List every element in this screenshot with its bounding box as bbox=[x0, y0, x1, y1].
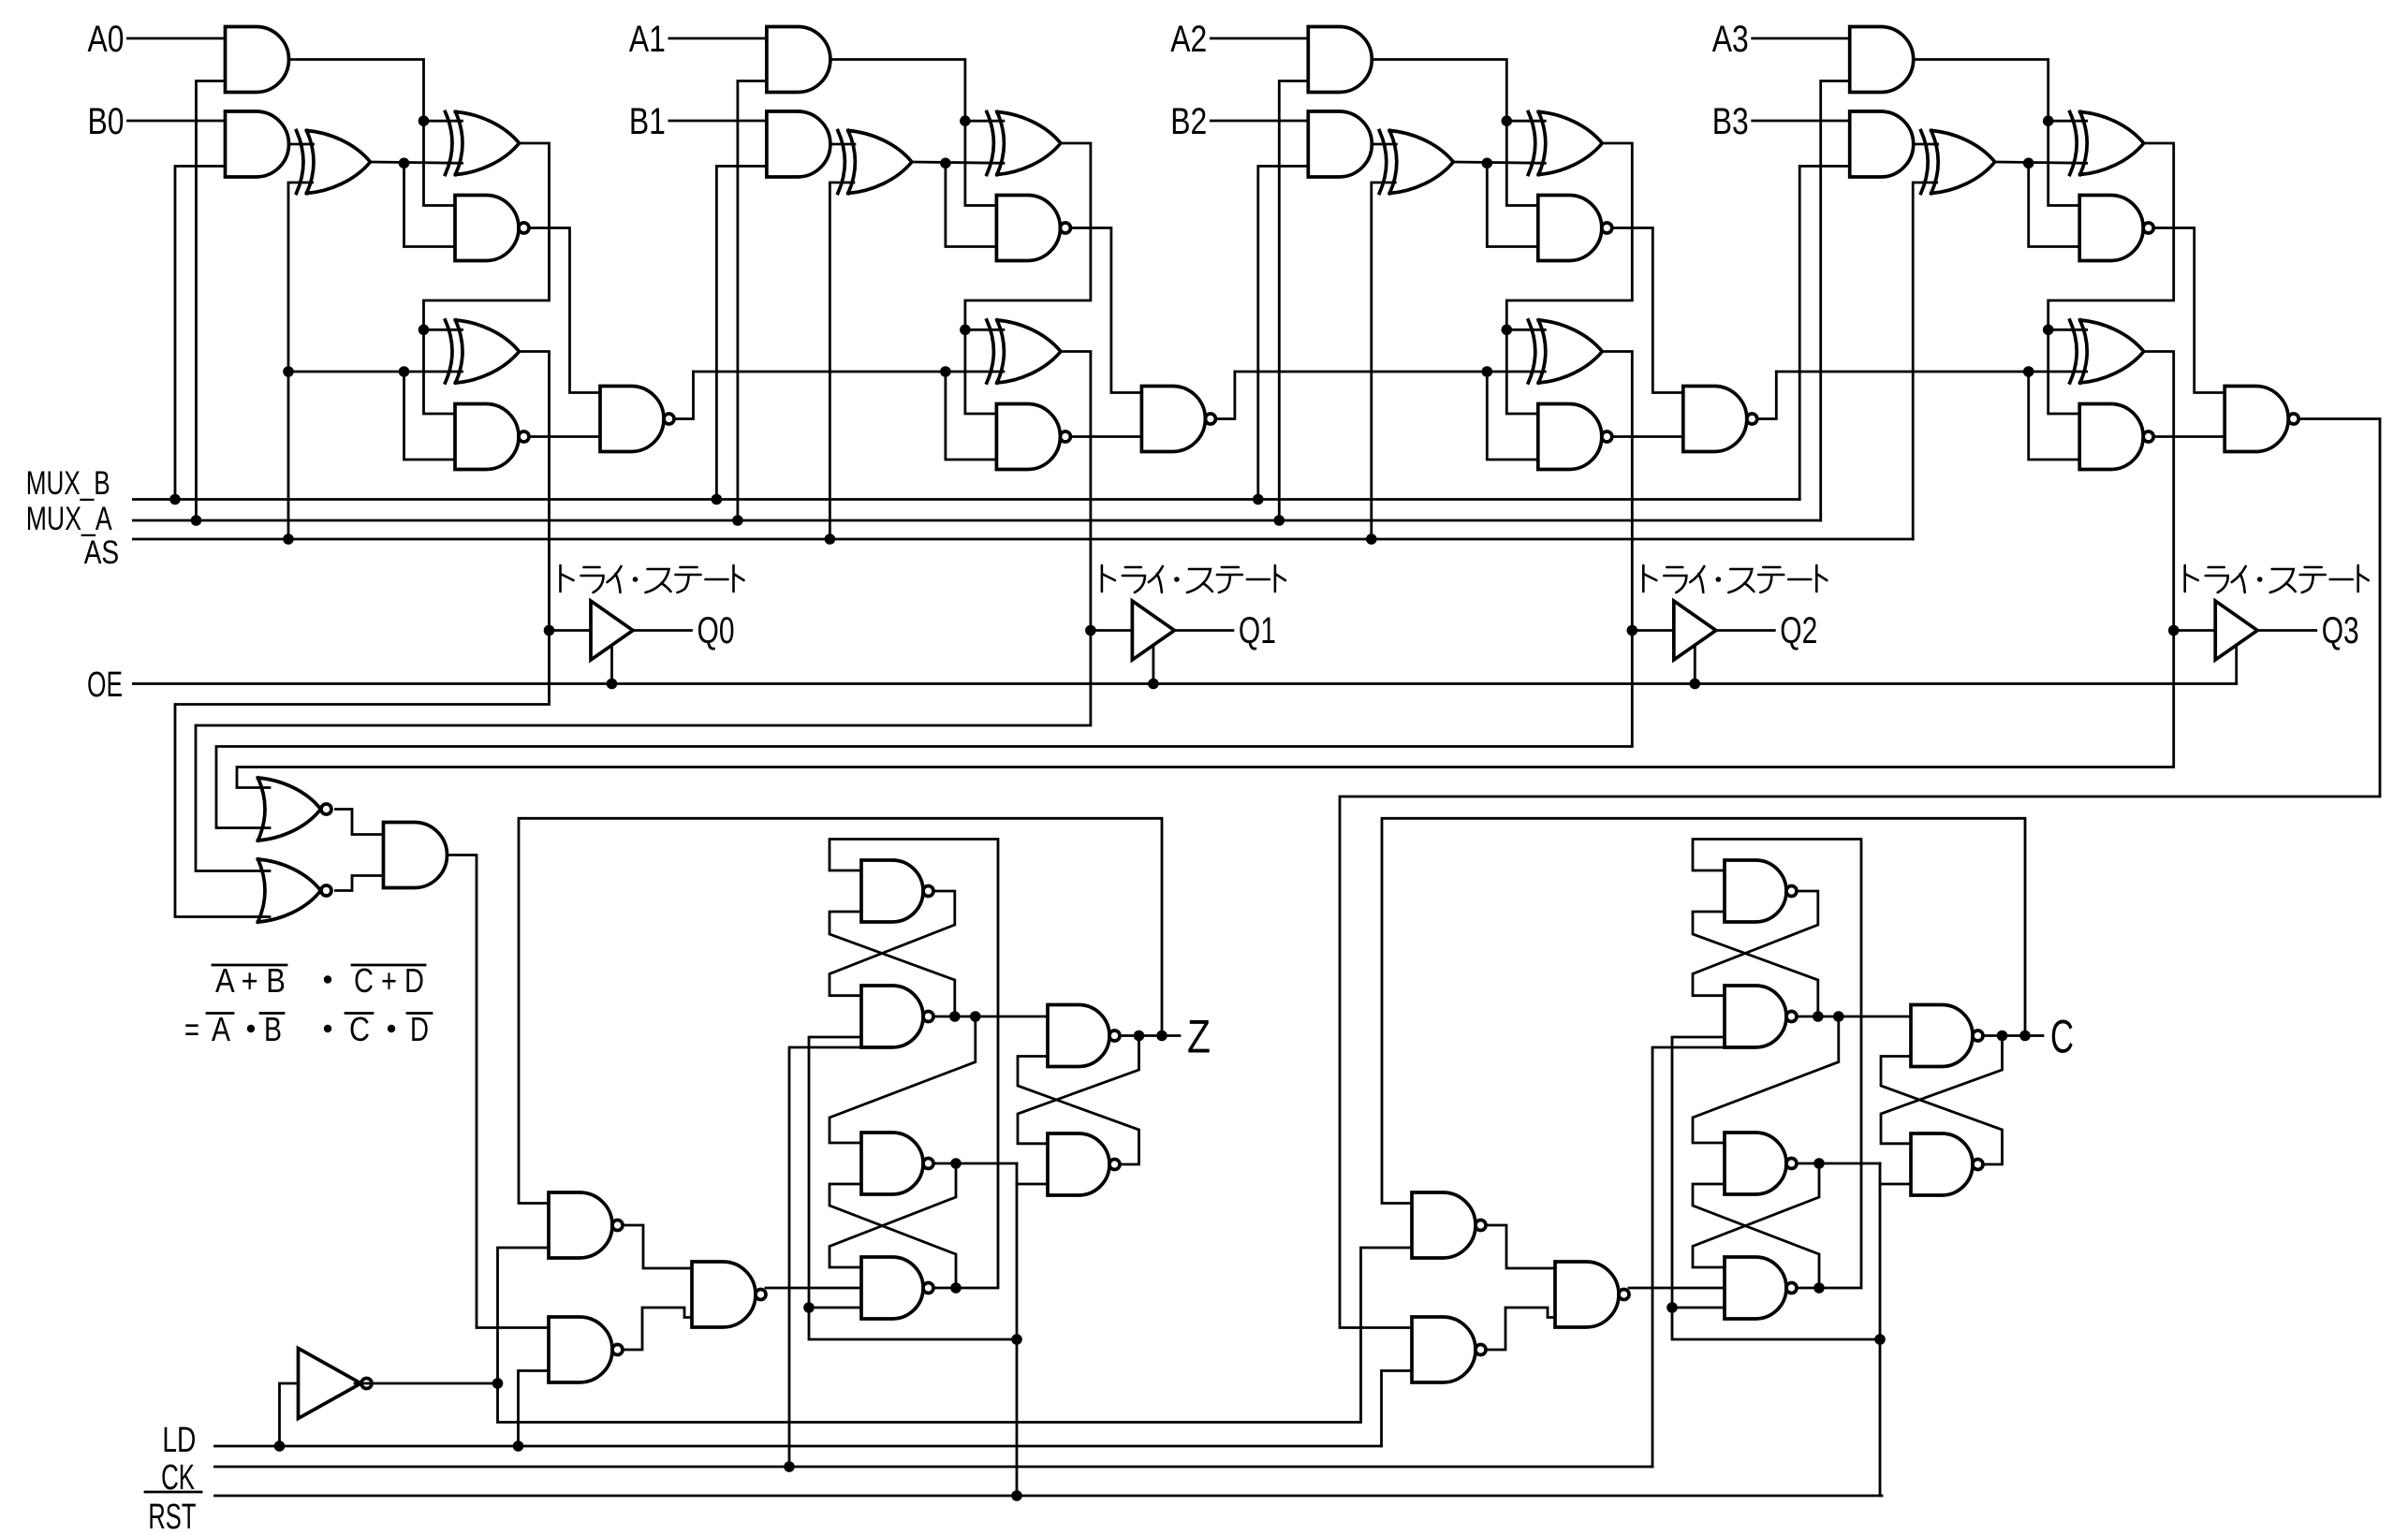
XOR gate sum slice 2 bbox=[1528, 320, 1602, 383]
wire tri-state enable 0 bbox=[610, 646, 613, 684]
wire latch cross bottom C-FF bbox=[1881, 1057, 2003, 1165]
svg-text:Q0: Q0 bbox=[697, 610, 735, 651]
wire sum2 to tri-state and NOR bbox=[216, 352, 1632, 828]
NAND gate PC slice 1 bbox=[996, 404, 1070, 470]
wire XOR1-NAND1 slice 2 bbox=[1487, 163, 1538, 246]
wire Q1 output bbox=[1174, 629, 1233, 632]
wire B0 input bbox=[128, 120, 226, 123]
tri-state buffer Q1 bbox=[1132, 601, 1174, 660]
wire tri-state input 2 bbox=[1632, 629, 1674, 632]
wire stub latch reset input Z-FF bbox=[1017, 1183, 1048, 1186]
AND gate B-select slice 2 bbox=[1308, 111, 1372, 177]
wire NAND1 out slice 2 bbox=[1612, 228, 1683, 393]
junction OE slice 2 bbox=[1690, 679, 1701, 690]
junction Cin-NAND2 slice 2 bbox=[1482, 366, 1493, 377]
wire clock-reset out C-FF bbox=[1819, 1162, 1880, 1165]
wire MUX_B riser slice 0 bbox=[175, 167, 226, 500]
XOR gate P slice 3 bbox=[2070, 112, 2144, 175]
wire clock-set out to latch Z-FF bbox=[936, 1016, 1049, 1018]
NAND gate G slice 1 bbox=[996, 196, 1070, 261]
wire NAND2 out slice 3 bbox=[2153, 435, 2224, 438]
NAND gate G slice 2 bbox=[1538, 196, 1612, 261]
inverter LD bbox=[299, 1349, 373, 1419]
wire C output bbox=[1986, 1034, 2043, 1037]
wire stub XOR2 top input slice 3 bbox=[2048, 120, 2087, 123]
wire B1 input bbox=[669, 120, 767, 123]
wire clock-set out to master-set bottom Z-FF bbox=[830, 912, 955, 1016]
wire XOR1-NAND1 slice 3 bbox=[2029, 163, 2080, 246]
wire load-gate out Z-FF bbox=[623, 1308, 692, 1350]
junction Q feedback C-FF bbox=[2019, 1031, 2031, 1042]
svg-text:B: B bbox=[264, 1010, 282, 1048]
wire latch cross bottom Z-FF bbox=[1018, 1057, 1139, 1165]
tri-state buffer Q2 bbox=[1674, 601, 1716, 660]
wire Q0 output bbox=[633, 629, 692, 632]
wire Cin-NAND2 slice 1 bbox=[946, 372, 997, 460]
wire XOR1 out slice 0 bbox=[371, 162, 463, 163]
bus LD bbox=[215, 1445, 1382, 1448]
svg-text:A3: A3 bbox=[1712, 19, 1749, 60]
svg-text:A: A bbox=[212, 1010, 230, 1048]
wire MUX_A riser slice 0 bbox=[197, 81, 226, 521]
svg-text:B1: B1 bbox=[629, 101, 666, 142]
NAND gate G slice 0 bbox=[455, 196, 529, 261]
bus RST bbox=[215, 1495, 1883, 1498]
wire carry out slice 3 to C flip-flop bbox=[1340, 419, 2380, 1328]
wire B2 input bbox=[1211, 120, 1308, 123]
junction Cin-NAND2 slice 3 bbox=[2023, 366, 2034, 377]
svg-text:A + B: A + B bbox=[215, 961, 286, 1000]
junction RST link Z-FF bbox=[1011, 1334, 1022, 1345]
NAND output-latch bottom Z-FF bbox=[1048, 1133, 1120, 1195]
wire RST riser Z-FF bbox=[1016, 1163, 1019, 1496]
NAND gate carry slice 1 bbox=[1141, 387, 1215, 452]
wire inverter out bbox=[355, 1382, 498, 1385]
junction clock-set out a Z-FF bbox=[949, 1011, 961, 1022]
NAND clock-reset C-FF bbox=[1725, 1133, 1797, 1194]
junction RST Z-FF bbox=[1011, 1490, 1022, 1501]
junction ANDA-XOR2 slice 2 bbox=[1502, 115, 1513, 126]
NAND output-latch top Z-FF bbox=[1048, 1005, 1120, 1067]
wire data-gate out Z-FF bbox=[936, 1287, 957, 1290]
wire carry into slice 1 bbox=[694, 371, 1004, 373]
wire tri-state input 3 bbox=[2174, 629, 2216, 632]
wire XOR2 out return slice 1 bbox=[965, 143, 1091, 414]
wire reset to clock-set and data-gate Z-FF bbox=[809, 1037, 1017, 1339]
junction clock-set out b C-FF bbox=[1833, 1011, 1844, 1022]
tri-state buffer Q3 bbox=[2215, 601, 2257, 660]
junction data-gate out Z-FF bbox=[950, 1282, 962, 1294]
wire tri-state enable 1 bbox=[1153, 646, 1155, 684]
wire clock-set out to clock-reset top C-FF bbox=[1693, 1016, 1839, 1143]
AND gate B-select slice 3 bbox=[1850, 111, 1914, 177]
svg-text:B0: B0 bbox=[88, 101, 125, 142]
wire Cin-NAND2 slice 2 bbox=[1487, 372, 1538, 460]
AND gate B-select slice 0 bbox=[226, 111, 289, 177]
label tri-state (Japanese) slice 0 bbox=[561, 565, 744, 592]
junction Cin-NAND2 slice 1 bbox=[940, 366, 951, 377]
wire NAND1 out slice 0 bbox=[529, 228, 600, 393]
wire zero signal to Z flip-flop bbox=[448, 855, 550, 1328]
NAND clock-reset Z-FF bbox=[861, 1133, 933, 1194]
wire master-set out to clock-set top Z-FF bbox=[830, 891, 955, 996]
tri-state buffer Q0 bbox=[591, 601, 633, 660]
junction CK Z-FF bbox=[784, 1461, 795, 1472]
wire Cin-NAND2 slice 3 bbox=[2029, 372, 2080, 460]
junction XOR1 out slice 0 bbox=[399, 158, 410, 169]
junction XOR1 out slice 2 bbox=[1482, 158, 1493, 169]
wire ANDA out slice 3 bbox=[1914, 60, 2080, 206]
wire NOR2 out bbox=[336, 876, 384, 891]
junction MUX_B slice 0 bbox=[169, 494, 181, 505]
junction data-gate out C-FF bbox=[1813, 1282, 1825, 1294]
wire clock-set out to latch C-FF bbox=[1799, 1016, 1912, 1018]
junction inverter output bbox=[492, 1378, 504, 1389]
wire stub data-gate bottom input Z-FF bbox=[809, 1307, 861, 1309]
AND gate A-select slice 1 bbox=[767, 27, 830, 93]
junction P-XOR3 slice 3 bbox=[2043, 325, 2054, 336]
wire stub data-gate bottom input C-FF bbox=[1672, 1307, 1725, 1309]
NAND gate PC slice 0 bbox=[455, 404, 529, 470]
junction AS slice 2 bbox=[1366, 534, 1377, 545]
svg-text:Q1: Q1 bbox=[1239, 610, 1276, 651]
NAND load-gate Z-FF bbox=[549, 1317, 623, 1382]
wire load-gate out C-FF bbox=[1486, 1308, 1555, 1350]
wire MUX_A riser slice 2 bbox=[1279, 81, 1308, 521]
NAND output-latch top C-FF bbox=[1911, 1005, 1983, 1067]
wire tri-state enable 3 bbox=[2235, 646, 2238, 684]
junction ANDA-XOR2 slice 3 bbox=[2043, 115, 2054, 126]
NAND gate G slice 3 bbox=[2079, 196, 2153, 261]
svg-text:Z: Z bbox=[1187, 1011, 1211, 1063]
wire stub XOR3 top input slice 1 bbox=[965, 329, 1004, 331]
wire AS riser slice 3 bbox=[1913, 183, 1937, 539]
wire stub XOR2 top input slice 0 bbox=[424, 120, 463, 123]
wire AS riser slice 0 bbox=[288, 183, 313, 539]
wire MUX_B riser slice 3 bbox=[1799, 167, 1850, 500]
AND gate A-select slice 3 bbox=[1850, 27, 1914, 93]
label tri-state (Japanese) slice 2 bbox=[1643, 565, 1827, 592]
svg-text:A2: A2 bbox=[1170, 19, 1207, 60]
wire ANDB out slice 0 bbox=[289, 143, 314, 146]
wire MUX_A riser slice 3 bbox=[1821, 81, 1850, 521]
wire A2 input bbox=[1211, 37, 1308, 40]
wire data-gate out to clock-reset bottom C-FF bbox=[1693, 1184, 1819, 1288]
svg-text:Q2: Q2 bbox=[1780, 610, 1817, 651]
junction MUX_B slice 2 bbox=[1253, 494, 1264, 505]
junction clock-reset out Z-FF bbox=[950, 1158, 962, 1169]
wire NAND1 out slice 3 bbox=[2153, 228, 2224, 393]
wire ANDB out slice 3 bbox=[1914, 143, 1938, 146]
junction P-XOR3 slice 2 bbox=[1502, 325, 1513, 336]
junction OE slice 0 bbox=[607, 679, 618, 690]
svg-text:OE: OE bbox=[87, 665, 123, 705]
NAND clock-set Z-FF bbox=[861, 986, 933, 1047]
XOR gate P slice 1 bbox=[987, 112, 1061, 175]
wire stub latch reset input C-FF bbox=[1880, 1183, 1911, 1186]
wire NAND2 out slice 2 bbox=[1612, 435, 1683, 438]
wire stub XOR3 top input slice 0 bbox=[424, 329, 463, 331]
NAND output-latch bottom C-FF bbox=[1911, 1133, 1983, 1195]
wire carry out slice 0 bbox=[674, 372, 694, 419]
wire carry out slice 1 bbox=[1215, 372, 1235, 419]
NAND hold-gate C-FF bbox=[1412, 1192, 1486, 1258]
overline RST bbox=[145, 1491, 201, 1494]
wire AS riser slice 1 bbox=[830, 183, 854, 539]
bus CK bbox=[215, 1466, 1653, 1469]
XOR gate B/AS slice 2 bbox=[1379, 131, 1453, 194]
junction XOR1 out slice 1 bbox=[940, 158, 951, 169]
NAND data-gate C-FF bbox=[1725, 1257, 1797, 1319]
junction Z out bbox=[1134, 1031, 1145, 1042]
bus MUX_B bbox=[133, 498, 1799, 501]
label tri-state (Japanese) slice 1 bbox=[1102, 565, 1285, 592]
wire MUX_A riser slice 1 bbox=[738, 81, 767, 521]
junction reset data-gate Z-FF bbox=[803, 1302, 815, 1313]
XOR gate B/AS slice 3 bbox=[1921, 131, 1995, 194]
bus AS bbox=[133, 538, 1913, 541]
junction MUX_A slice 2 bbox=[1274, 515, 1285, 526]
AND gate A-select slice 0 bbox=[226, 27, 289, 93]
junction MUX_B slice 1 bbox=[712, 494, 723, 505]
wire A1 input bbox=[669, 37, 767, 40]
svg-text:RST: RST bbox=[148, 1498, 196, 1535]
junction MUX_A slice 1 bbox=[732, 515, 743, 526]
junction Q feedback Z-FF bbox=[1156, 1031, 1167, 1042]
wire XOR1 out slice 1 bbox=[912, 162, 1004, 163]
junction sum1 tri-state input bbox=[1085, 625, 1096, 636]
svg-text:B3: B3 bbox=[1712, 101, 1749, 142]
wire clock-reset out to data-gate top Z-FF bbox=[830, 1163, 956, 1267]
wire hold-gate out C-FF bbox=[1486, 1225, 1555, 1268]
AND gate zero-detect combine bbox=[384, 823, 448, 888]
XOR gate sum slice 1 bbox=[987, 320, 1061, 383]
NAND data-gate Z-FF bbox=[861, 1257, 933, 1319]
wire clock-reset out Z-FF bbox=[956, 1162, 1017, 1165]
svg-text:D: D bbox=[410, 1010, 429, 1048]
wire latch cross top Z-FF bbox=[1018, 1036, 1139, 1144]
wire B3 input bbox=[1753, 120, 1850, 123]
wire Q feedback frame C-FF bbox=[1382, 818, 2025, 1203]
bus OE bbox=[133, 682, 2236, 685]
wire clock-set out to master-set bottom C-FF bbox=[1693, 912, 1818, 1016]
junction sum2 tri-state input bbox=[1627, 625, 1638, 636]
NAND D-mux Z-FF bbox=[692, 1262, 766, 1327]
junction MUX_A slice 0 bbox=[191, 515, 202, 526]
junction LD Z bbox=[513, 1440, 524, 1452]
wire D to data-gate C-FF bbox=[1629, 1287, 1725, 1290]
wire master-set out to clock-set top C-FF bbox=[1693, 891, 1818, 996]
wire NOR1 out bbox=[336, 810, 384, 835]
bus MUX_A bbox=[133, 519, 1820, 522]
svg-text:Q3: Q3 bbox=[2322, 610, 2359, 651]
wire clock-reset out to data-gate top C-FF bbox=[1693, 1163, 1819, 1267]
wire XOR2 out return slice 0 bbox=[424, 143, 550, 414]
svg-text:MUX_A: MUX_A bbox=[26, 501, 112, 537]
XOR gate P slice 2 bbox=[1528, 112, 1602, 175]
wire RST riser C-FF bbox=[1879, 1163, 1882, 1496]
svg-text:A0: A0 bbox=[88, 19, 125, 60]
svg-text:C + D: C + D bbox=[354, 961, 424, 1000]
NAND D-mux C-FF bbox=[1555, 1262, 1629, 1327]
wire MUX_B riser slice 2 bbox=[1258, 167, 1309, 500]
wire CK riser C-FF bbox=[1652, 1047, 1725, 1467]
wire carry-in 0 from AS bbox=[288, 371, 463, 373]
NAND gate carry slice 3 bbox=[2224, 387, 2298, 452]
junction RST link C-FF bbox=[1874, 1334, 1886, 1345]
svg-text:B2: B2 bbox=[1170, 101, 1207, 142]
wire XOR1-NAND1 slice 1 bbox=[946, 163, 997, 246]
junction ANDA-XOR2 slice 0 bbox=[418, 115, 430, 126]
wire data-gate out to clock-reset bottom Z-FF bbox=[830, 1184, 956, 1288]
wire ANDA out slice 0 bbox=[289, 60, 456, 206]
wire data-gate out C-FF bbox=[1799, 1287, 1820, 1290]
wire AS riser slice 2 bbox=[1372, 183, 1396, 539]
wire Q2 output bbox=[1716, 629, 1775, 632]
wire sum3 to tri-state and NOR bbox=[237, 352, 2174, 788]
XOR gate B/AS slice 1 bbox=[838, 131, 912, 194]
junction clock-reset out C-FF bbox=[1813, 1158, 1825, 1169]
svg-text:C: C bbox=[2050, 1011, 2074, 1063]
wire CK riser Z-FF bbox=[789, 1047, 861, 1467]
junction sum0 tri-state input bbox=[544, 625, 555, 636]
NAND clock-set C-FF bbox=[1725, 986, 1797, 1047]
NOR gate zero-detect low bits bbox=[258, 859, 332, 922]
wire LD riser C bbox=[1382, 1371, 1413, 1447]
wire D to data-gate Z-FF bbox=[766, 1287, 861, 1290]
junction AS carry-in bbox=[283, 366, 294, 377]
junction AS slice 0 bbox=[283, 534, 294, 545]
wire sum1 to tri-state and NOR bbox=[196, 352, 1091, 871]
wire reset to clock-set and data-gate C-FF bbox=[1672, 1037, 1880, 1339]
wire XOR2 out return slice 2 bbox=[1506, 143, 1632, 414]
wire sum0 to tri-state and NOR bbox=[175, 352, 550, 917]
wire carry into slice 2 bbox=[1235, 371, 1545, 373]
junction clock-set out a C-FF bbox=[1813, 1011, 1824, 1022]
junction Cin-NAND2 slice 0 bbox=[399, 366, 410, 377]
XOR gate B/AS slice 0 bbox=[297, 131, 371, 194]
wire data-gate out to master-set C-FF bbox=[1693, 840, 1861, 1289]
wire ANDB out slice 1 bbox=[830, 143, 855, 146]
wire ANDA out slice 1 bbox=[830, 60, 997, 206]
wire latch cross top C-FF bbox=[1881, 1036, 2003, 1144]
wire data-gate out to master-set Z-FF bbox=[830, 840, 998, 1289]
svg-text:C: C bbox=[349, 1010, 370, 1048]
NAND master-set C-FF bbox=[1725, 860, 1797, 922]
wire stub XOR3 top input slice 3 bbox=[2048, 329, 2087, 331]
wire NOT-LD distribution bbox=[498, 1248, 1413, 1423]
wire Cin-NAND2 slice 0 bbox=[404, 372, 456, 460]
XOR gate sum slice 3 bbox=[2070, 320, 2144, 383]
wire NAND2 out slice 1 bbox=[1070, 435, 1141, 438]
junction P-XOR3 slice 0 bbox=[418, 325, 430, 336]
NAND master-set Z-FF bbox=[861, 860, 933, 922]
svg-text:LD: LD bbox=[162, 1421, 196, 1460]
junction clock-set out b Z-FF bbox=[970, 1011, 981, 1022]
wire XOR1 out slice 2 bbox=[1453, 162, 1545, 163]
label tri-state (Japanese) slice 3 bbox=[2185, 565, 2369, 592]
junction LD inverter bbox=[274, 1440, 286, 1452]
junction sum3 tri-state input bbox=[2168, 625, 2180, 636]
junction P-XOR3 slice 1 bbox=[960, 325, 971, 336]
wire Q3 output bbox=[2257, 629, 2316, 632]
wire XOR1 out slice 3 bbox=[1995, 162, 2087, 163]
NAND hold-gate Z-FF bbox=[549, 1192, 623, 1258]
NAND gate PC slice 2 bbox=[1538, 404, 1612, 470]
wire MUX_B riser slice 1 bbox=[716, 167, 767, 500]
wire tri-state enable 2 bbox=[1694, 646, 1696, 684]
NAND gate PC slice 3 bbox=[2079, 404, 2153, 470]
wire A0 input bbox=[128, 37, 226, 40]
svg-text:A1: A1 bbox=[629, 19, 666, 60]
junction ANDA-XOR2 slice 1 bbox=[960, 115, 971, 126]
wire tri-state input 1 bbox=[1091, 629, 1133, 632]
wire stub XOR2 top input slice 2 bbox=[1506, 120, 1545, 123]
wire NAND2 out slice 0 bbox=[529, 435, 600, 438]
svg-text:MUX_B: MUX_B bbox=[26, 465, 110, 502]
wire tri-state input 0 bbox=[550, 629, 592, 632]
junction XOR1 out slice 3 bbox=[2023, 158, 2034, 169]
NOR gate zero-detect high bits bbox=[258, 778, 332, 841]
NAND load-gate C-FF bbox=[1412, 1317, 1486, 1382]
XOR gate P slice 0 bbox=[446, 112, 520, 175]
wire hold-gate out Z-FF bbox=[623, 1225, 692, 1268]
wire ANDB out slice 2 bbox=[1372, 143, 1396, 146]
NAND gate carry slice 2 bbox=[1683, 387, 1757, 452]
wire Q feedback frame Z-FF bbox=[519, 818, 1162, 1203]
wire Z output bbox=[1123, 1034, 1180, 1037]
XOR gate sum slice 0 bbox=[446, 320, 520, 383]
wire XOR1-NAND1 slice 0 bbox=[404, 163, 456, 246]
wire NAND1 out slice 1 bbox=[1070, 228, 1141, 393]
wire clock-set out to clock-reset top Z-FF bbox=[830, 1016, 976, 1143]
svg-text:AS: AS bbox=[84, 534, 120, 571]
AND gate B-select slice 1 bbox=[767, 111, 830, 177]
wire LD riser Z bbox=[519, 1371, 550, 1447]
wire carry out slice 2 bbox=[1757, 372, 1777, 419]
wire ANDA out slice 2 bbox=[1372, 60, 1538, 206]
junction AS slice 1 bbox=[825, 534, 836, 545]
wire stub XOR3 top input slice 2 bbox=[1506, 329, 1545, 331]
wire A3 input bbox=[1753, 37, 1850, 40]
svg-text:=: = bbox=[184, 1010, 199, 1048]
junction OE slice 1 bbox=[1148, 679, 1159, 690]
wire XOR2 out return slice 3 bbox=[2048, 143, 2174, 414]
wire carry into slice 3 bbox=[1776, 371, 2086, 373]
junction reset data-gate C-FF bbox=[1667, 1302, 1678, 1313]
wire inverter input from LD bbox=[280, 1383, 299, 1446]
wire stub XOR2 top input slice 1 bbox=[965, 120, 1004, 123]
NAND gate carry slice 0 bbox=[600, 387, 674, 452]
AND gate A-select slice 2 bbox=[1308, 27, 1372, 93]
junction C out bbox=[1997, 1031, 2008, 1042]
